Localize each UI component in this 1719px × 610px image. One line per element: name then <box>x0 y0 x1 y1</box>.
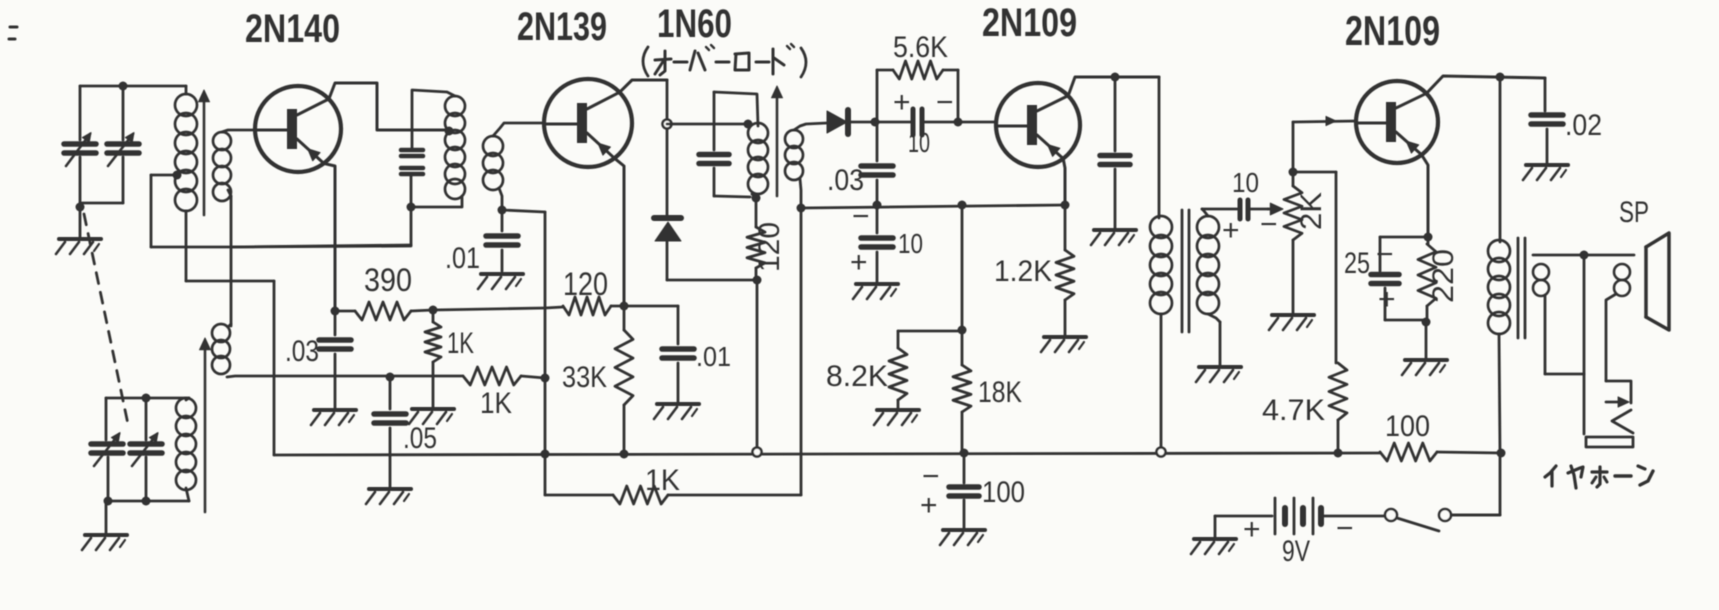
svg-text:+: + <box>1243 513 1261 546</box>
svg-text:+: + <box>893 86 911 119</box>
svg-text:.02: .02 <box>1565 109 1602 142</box>
svg-text:2N140: 2N140 <box>245 7 340 51</box>
svg-text:10: 10 <box>1232 167 1259 198</box>
svg-text:2N139: 2N139 <box>517 5 607 49</box>
svg-text:2N109: 2N109 <box>982 1 1077 45</box>
svg-text:18K: 18K <box>978 376 1022 409</box>
svg-text:−: − <box>852 200 870 233</box>
svg-text:+: + <box>850 246 868 279</box>
svg-text:1K: 1K <box>447 327 474 360</box>
svg-text:−: − <box>1336 512 1354 545</box>
svg-text:1K: 1K <box>480 387 512 420</box>
svg-text:1K: 1K <box>645 464 680 497</box>
svg-text:−: − <box>936 86 954 119</box>
svg-text:100: 100 <box>1385 410 1430 443</box>
svg-text:33K: 33K <box>562 361 607 394</box>
svg-text:100: 100 <box>982 476 1025 509</box>
svg-text:4.7K: 4.7K <box>1262 394 1325 427</box>
svg-text:120: 120 <box>563 266 608 302</box>
svg-text:.03: .03 <box>285 335 319 368</box>
svg-text:+: + <box>920 489 938 522</box>
svg-text:10: 10 <box>908 127 930 158</box>
svg-text:2N109: 2N109 <box>1345 7 1440 54</box>
svg-text:1.2K: 1.2K <box>994 255 1052 288</box>
svg-text:2K: 2K <box>1295 192 1328 230</box>
svg-text:+: + <box>1378 283 1396 316</box>
svg-text:SP: SP <box>1619 196 1649 229</box>
svg-text:+: + <box>1222 214 1240 247</box>
svg-text:220: 220 <box>1427 249 1460 303</box>
svg-text:−: − <box>1260 208 1278 241</box>
svg-text:.01: .01 <box>696 341 731 372</box>
svg-text:8.2K: 8.2K <box>826 360 888 393</box>
svg-text:5.6K: 5.6K <box>893 31 948 64</box>
svg-text:.01: .01 <box>445 242 480 275</box>
svg-text:.03: .03 <box>827 164 864 197</box>
svg-text:10: 10 <box>898 228 923 259</box>
svg-text:390: 390 <box>364 262 412 298</box>
svg-text:9V: 9V <box>1282 535 1310 568</box>
svg-text:1N60: 1N60 <box>657 2 732 46</box>
svg-text:−: − <box>1376 238 1394 271</box>
svg-text:25: 25 <box>1344 247 1370 280</box>
svg-text:120: 120 <box>753 222 786 272</box>
svg-text:.05: .05 <box>403 422 437 455</box>
